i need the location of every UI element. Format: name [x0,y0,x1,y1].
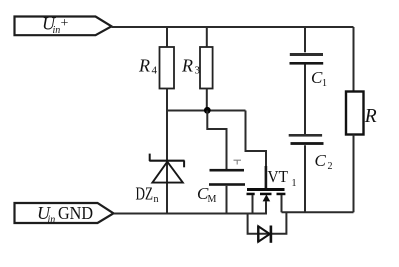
svg-text:1: 1 [292,178,297,189]
node junction dot [204,107,211,114]
capacitor CM plus mark [234,160,242,164]
wire CM bottom lead [226,186,228,214]
net label Uin GND [15,203,114,226]
wire step from junction down to CM top plate [207,111,226,170]
svg-text:R: R [364,106,377,127]
wire R top lead [353,27,355,92]
wire R bottom lead [353,135,355,213]
svg-text:C: C [315,151,327,170]
svg-text:R: R [138,56,150,76]
wire diode loop [248,212,287,233]
capacitor C1 [290,53,324,65]
svg-text:VT: VT [268,167,289,186]
wire R4 bottom lead to ground rail (through zener) [166,89,168,214]
wire R3 bottom lead [206,89,208,111]
svg-text:1: 1 [322,78,327,89]
mosfet VT1 [247,188,286,201]
wire mosfet body stub [265,201,267,214]
svg-text:in: in [53,25,61,36]
wire horizontal from R4 line to gate branch [167,110,246,112]
label C2 [315,151,333,172]
wire C column bottom [304,145,306,212]
wire R3 top lead [206,26,208,47]
svg-text:+: + [61,16,69,31]
capacitor CM [209,169,245,186]
svg-text:GND: GND [58,203,93,223]
svg-text:4: 4 [152,65,158,77]
wire C column top [304,26,306,52]
label CM [197,184,217,205]
resistor R3 [200,47,213,89]
wire R4 top lead [166,26,168,47]
svg-text:DZ: DZ [136,184,154,204]
label DZn [136,184,159,206]
label C1 [311,68,327,89]
wire mosfet source stub [252,195,254,214]
svg-text:n: n [154,194,159,205]
resistor R4 [160,47,175,89]
diode body (freewheeling) [258,226,272,243]
svg-text:in: in [48,215,56,226]
resistor R [346,92,364,135]
svg-text:2: 2 [328,161,333,172]
zener diode DZn [149,154,184,183]
svg-text:3: 3 [195,65,201,77]
label R3 [181,56,201,77]
wire C column middle [304,65,306,135]
label VT1 [268,167,297,189]
svg-text:R: R [181,56,193,76]
capacitor C2 [289,134,324,145]
svg-text:M: M [208,194,217,205]
net label Uin+ [15,14,112,36]
wire top rail [112,26,354,28]
label R4 [138,56,158,77]
wire mosfet drain stub [281,195,283,212]
wire ground rail left [114,213,267,215]
wire gate branch: right, down, right, down to gate [246,111,267,190]
wire drain rail right [282,211,354,213]
wire gate lead thick segment [265,166,268,189]
